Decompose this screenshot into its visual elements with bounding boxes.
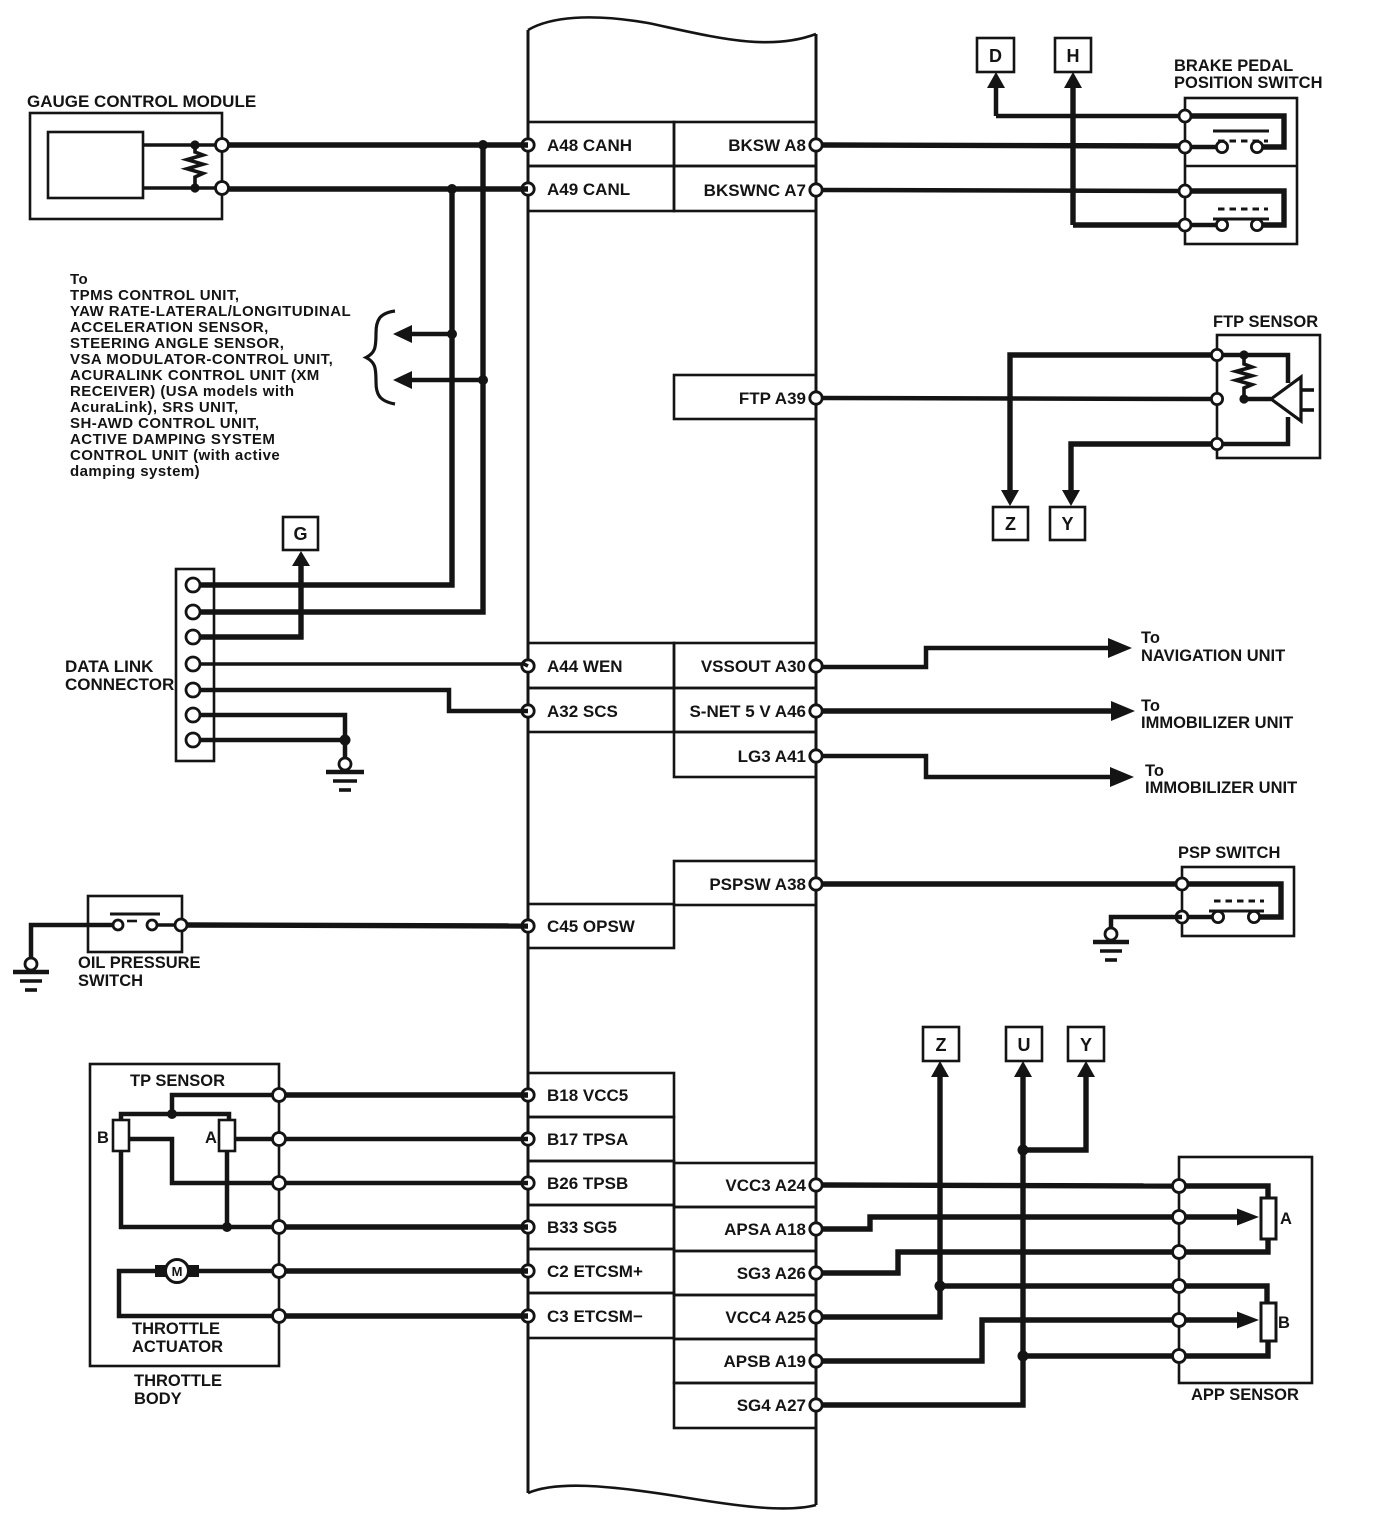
svg-text:B33 SG5: B33 SG5 — [547, 1218, 617, 1237]
pin cell FTP A39 (right side of ECM) — [674, 375, 822, 419]
oil pressure switch label — [78, 954, 201, 990]
pin cell C45 OPSW (left side of ECM) — [522, 904, 674, 948]
pin cell B18 VCC5 (left side of ECM) — [522, 1073, 674, 1117]
svg-text:G: G — [293, 524, 307, 544]
wire oil pressure switch to C45 OPSW — [187, 925, 528, 926]
DLC pin 3 circle — [186, 630, 200, 644]
svg-text:B: B — [1278, 1314, 1290, 1332]
svg-text:Z: Z — [936, 1035, 947, 1055]
potentiometer A (APP sensor) — [1261, 1198, 1292, 1239]
pin cell LG3 A41 (right side of ECM) — [674, 732, 822, 777]
wire C3 ETCSM- to motor — [119, 1271, 528, 1316]
oil pressure switch contact set — [110, 914, 176, 930]
PSP switch contact set — [1176, 878, 1281, 923]
data link connector label — [65, 657, 174, 694]
gauge control module inner unit box — [48, 132, 143, 198]
svg-text:LG3 A41: LG3 A41 — [738, 747, 806, 766]
svg-text:YAW RATE-LATERAL/LONGITUDINAL: YAW RATE-LATERAL/LONGITUDINAL — [70, 303, 351, 320]
potentiometer B (TP sensor) — [97, 1120, 129, 1151]
wire VCC3 A24 to APP sensor pot A top — [822, 1185, 1268, 1198]
svg-text:Y: Y — [1080, 1035, 1092, 1055]
connector circle gauge module CANH — [216, 139, 229, 152]
svg-text:FTP A39: FTP A39 — [739, 389, 806, 408]
svg-text:M: M — [172, 1264, 183, 1279]
svg-text:ACTUATOR: ACTUATOR — [132, 1338, 223, 1356]
wire SG4 A27 via connector U and Y, and APP pot B bottom — [822, 1061, 1268, 1405]
svg-text:TP SENSOR: TP SENSOR — [130, 1072, 225, 1090]
svg-text:B18 VCC5: B18 VCC5 — [547, 1086, 628, 1105]
svg-text:damping system): damping system) — [70, 463, 200, 480]
wire DLC pin7 to ground junction — [200, 735, 351, 759]
wire S-NET 5V A46 to immobilizer unit with right arrow — [822, 701, 1135, 721]
svg-text:POSITION SWITCH: POSITION SWITCH — [1174, 74, 1323, 92]
DLC pin 2 circle — [186, 605, 200, 619]
resistor (CAN termination) inside gauge control module — [187, 140, 203, 192]
wire CANL vertical drop to DLC pin 1 — [200, 189, 452, 585]
oil pressure switch terminal circle — [175, 919, 187, 931]
svg-text:D: D — [989, 46, 1002, 66]
svg-text:BKSW A8: BKSW A8 — [728, 136, 806, 155]
svg-text:NAVIGATION UNIT: NAVIGATION UNIT — [1141, 647, 1285, 665]
wire BKSW A8 to brake switch — [822, 145, 1185, 146]
svg-text:APSA A18: APSA A18 — [724, 1220, 806, 1239]
svg-text:BODY: BODY — [134, 1390, 182, 1408]
potentiometer A (TP sensor) — [205, 1120, 235, 1151]
svg-text:A49 CANL: A49 CANL — [547, 180, 630, 199]
wire brake switch NO to connector D with up arrow — [987, 72, 1185, 116]
svg-text:OIL PRESSURE: OIL PRESSURE — [78, 954, 201, 972]
ground symbol (oil pressure switch) — [13, 958, 49, 990]
pin cell SG3 A26 (right side of ECM) — [674, 1251, 822, 1295]
svg-text:To: To — [70, 271, 88, 288]
svg-text:VCC4 A25: VCC4 A25 — [725, 1308, 806, 1327]
DLC pin 5 circle — [186, 683, 200, 697]
TP sensor terminal circles — [273, 1089, 286, 1323]
FTP sensor terminal circles — [1211, 349, 1222, 449]
brake pedal position switch outer box — [1185, 98, 1297, 244]
ECM/PCM main column outline with torn wavy top and bottom edges — [528, 17, 816, 1508]
wire VSSOUT A30 to navigation unit with right arrow — [822, 638, 1132, 667]
wire A49 CANL bus (gauge module to ECM) — [228, 186, 528, 191]
connector Y box (upper) — [1050, 507, 1085, 540]
brace (curly bracket) grouping CAN branch arrows — [366, 311, 395, 404]
pin cell APSB A19 (right side of ECM) — [674, 1339, 822, 1383]
label To IMMOBILIZER UNIT (lower) — [1145, 762, 1297, 797]
svg-text:ACTIVE DAMPING SYSTEM: ACTIVE DAMPING SYSTEM — [70, 431, 275, 448]
DLC pin 7 circle — [186, 733, 200, 747]
gauge control module outer box — [30, 113, 222, 219]
pin cell BKSWNC A7 (right side of ECM) — [674, 166, 822, 211]
svg-text:ACURALINK CONTROL UNIT (XM: ACURALINK CONTROL UNIT (XM — [70, 367, 320, 384]
APP sensor terminal circles — [1173, 1180, 1186, 1363]
wire gauge module CANL internal — [143, 186, 222, 190]
DLC pin 4 circle — [186, 657, 200, 671]
svg-text:VSSOUT A30: VSSOUT A30 — [701, 657, 806, 676]
svg-text:B17 TPSA: B17 TPSA — [547, 1130, 628, 1149]
wire brake switch NC to connector H with up arrow — [1064, 72, 1185, 225]
wire SG3 A26 from APP pot A bottom — [822, 1239, 1268, 1273]
svg-text:SG3 A26: SG3 A26 — [737, 1264, 806, 1283]
brake switch terminal circles on box edge — [1179, 110, 1191, 231]
wire PSPSW A38 to PSP switch — [822, 881, 1182, 886]
svg-text:SG4 A27: SG4 A27 — [737, 1396, 806, 1415]
junction CANH bus at x483 — [478, 140, 488, 150]
svg-text:DATA LINK: DATA LINK — [65, 657, 154, 676]
wire FTP sensor VCC to connector Z with down arrow — [1001, 355, 1217, 506]
throttle body outer box — [90, 1064, 279, 1366]
throttle actuator label — [132, 1320, 223, 1356]
svg-text:IMMOBILIZER UNIT: IMMOBILIZER UNIT — [1145, 779, 1297, 797]
throttle actuator motor M — [155, 1260, 199, 1283]
brake pedal position switch label — [1174, 57, 1323, 92]
svg-text:APSB A19: APSB A19 — [723, 1352, 806, 1371]
svg-text:A44 WEN: A44 WEN — [547, 657, 623, 676]
svg-text:VCC3 A24: VCC3 A24 — [725, 1176, 806, 1195]
wire APSA A18 from APP pot A wiper — [822, 1209, 1259, 1230]
svg-text:ACCELERATION SENSOR,: ACCELERATION SENSOR, — [70, 319, 269, 336]
svg-text:Y: Y — [1061, 514, 1073, 534]
pin cell C2 ETCSM+ (left side of ECM) — [522, 1249, 674, 1293]
wire BKSWNC A7 to brake switch — [822, 190, 1185, 191]
pin cell A49 CANL (left side of ECM) — [522, 166, 674, 211]
connector D box — [977, 38, 1014, 72]
pin cell S-NET 5 V A46 (right side of ECM) — [674, 688, 822, 732]
svg-text:GAUGE CONTROL MODULE: GAUGE CONTROL MODULE — [27, 92, 256, 111]
pin cell B33 SG5 (left side of ECM) — [522, 1205, 674, 1249]
wire LG3 A41 to immobilizer unit with right arrow — [822, 756, 1134, 787]
svg-text:H: H — [1067, 46, 1080, 66]
svg-text:THROTTLE: THROTTLE — [132, 1320, 220, 1338]
svg-text:CONTROL UNIT (with active: CONTROL UNIT (with active — [70, 447, 280, 464]
svg-text:THROTTLE: THROTTLE — [134, 1372, 222, 1390]
junction CANL bus at x452 — [447, 184, 457, 194]
brake switch lower (NC) contact set — [1188, 191, 1284, 231]
FTP sensor internal transducer triangle — [1217, 355, 1314, 444]
data link connector box — [176, 569, 214, 761]
svg-text:To: To — [1145, 762, 1164, 780]
svg-text:Z: Z — [1005, 514, 1016, 534]
ground symbol G101 (DLC) — [326, 758, 364, 790]
pin cell PSPSW A38 (right side of ECM) — [674, 861, 822, 905]
svg-text:A48 CANH: A48 CANH — [547, 136, 632, 155]
pin cell A48 CANH (left side of ECM) — [522, 122, 674, 166]
connector H box — [1055, 38, 1091, 72]
svg-text:STEERING ANGLE SENSOR,: STEERING ANGLE SENSOR, — [70, 335, 284, 352]
svg-text:VSA MODULATOR-CONTROL UNIT,: VSA MODULATOR-CONTROL UNIT, — [70, 351, 333, 368]
svg-text:C3 ETCSM−: C3 ETCSM− — [547, 1307, 643, 1326]
wire A48 CANH bus (gauge module to ECM) — [228, 142, 528, 147]
svg-text:A: A — [205, 1129, 217, 1147]
svg-text:FTP SENSOR: FTP SENSOR — [1213, 313, 1318, 331]
svg-text:B: B — [97, 1129, 109, 1147]
FTP sensor box — [1217, 335, 1320, 458]
oil pressure switch box — [88, 896, 182, 952]
wire B26 TPSB from pot B wiper — [129, 1139, 528, 1183]
connector Z box (lower) — [923, 1027, 959, 1061]
svg-text:B26 TPSB: B26 TPSB — [547, 1174, 628, 1193]
wire VCC4 A25 to APP pot B top, with branch to connector Z — [822, 1061, 1267, 1317]
wire gauge module CANH internal — [143, 143, 222, 147]
brake switch upper (NO) contact set — [1188, 116, 1284, 153]
svg-text:S-NET 5 V A46: S-NET 5 V A46 — [689, 702, 806, 721]
pin cell A32 SCS (left side of ECM) — [522, 688, 674, 732]
wire DLC pin3 to connector G with up arrow — [200, 551, 310, 637]
wire C2 ETCSM+ to motor — [199, 1269, 528, 1274]
pin cell APSA A18 (right side of ECM) — [674, 1207, 822, 1251]
connector U box (lower) — [1006, 1027, 1042, 1061]
label To IMMOBILIZER UNIT (upper) — [1141, 697, 1293, 732]
wire PSP switch to ground — [1111, 917, 1182, 928]
DLC pin 6 circle — [186, 708, 200, 722]
svg-text:A32 SCS: A32 SCS — [547, 702, 618, 721]
note text: To TPMS CONTROL UNIT etc — [70, 271, 351, 480]
svg-text:APP SENSOR: APP SENSOR — [1191, 1386, 1299, 1404]
svg-text:BRAKE PEDAL: BRAKE PEDAL — [1174, 57, 1293, 75]
pin cell VSSOUT A30 (right side of ECM) — [674, 643, 822, 688]
wire VCC5 internal feed to pots A and B — [121, 1095, 279, 1120]
label To NAVIGATION UNIT — [1141, 629, 1285, 665]
svg-text:PSPSW A38: PSPSW A38 — [709, 875, 806, 894]
wire B18 VCC5 to TP sensor — [286, 1092, 528, 1097]
wire FTP sensor ground to connector Y with down arrow — [1062, 444, 1217, 506]
svg-text:SH-AWD CONTROL UNIT,: SH-AWD CONTROL UNIT, — [70, 415, 260, 432]
pin cell B26 TPSB (left side of ECM) — [522, 1161, 674, 1205]
svg-text:To: To — [1141, 629, 1160, 647]
svg-text:IMMOBILIZER UNIT: IMMOBILIZER UNIT — [1141, 714, 1293, 732]
svg-text:C2 ETCSM+: C2 ETCSM+ — [547, 1262, 643, 1281]
svg-text:PSP SWITCH: PSP SWITCH — [1178, 844, 1280, 862]
connector circle gauge module CANL — [216, 182, 229, 195]
wire oil pressure switch to ground — [31, 925, 113, 958]
pin cell SG4 A27 (right side of ECM) — [674, 1383, 822, 1428]
wire DLC pin5 to A32 SCS — [200, 690, 528, 711]
connector Y box (lower) — [1068, 1027, 1104, 1061]
wire DLC pin4 to A44 WEN — [200, 664, 528, 666]
DLC pin 1 circle — [186, 578, 200, 592]
svg-text:RECEIVER) (USA models with: RECEIVER) (USA models with — [70, 383, 295, 400]
potentiometer B (APP sensor) — [1261, 1303, 1290, 1341]
wire APSB A19 from APP pot B wiper — [822, 1312, 1259, 1362]
pin cell BKSW A8 (right side of ECM) — [674, 122, 822, 166]
svg-text:CONNECTOR: CONNECTOR — [65, 675, 174, 694]
svg-text:A: A — [1280, 1210, 1292, 1228]
PSP switch box — [1182, 867, 1294, 936]
svg-text:SWITCH: SWITCH — [78, 972, 143, 990]
throttle body label — [134, 1372, 222, 1408]
svg-text:AcuraLink), SRS UNIT,: AcuraLink), SRS UNIT, — [70, 399, 239, 416]
wire DLC pin6 to ground — [200, 715, 345, 740]
wire arrow branch from CANL to other control units — [393, 325, 457, 343]
ground symbol (PSP switch) — [1093, 928, 1129, 960]
wire FTP A39 signal to ECM — [822, 398, 1217, 399]
svg-text:TPMS CONTROL UNIT,: TPMS CONTROL UNIT, — [70, 287, 240, 304]
pin cell B17 TPSA (left side of ECM) — [522, 1117, 674, 1161]
wire B33 SG5 from pot bottoms — [121, 1151, 528, 1232]
wire B17 TPSA from pot A wiper — [235, 1137, 528, 1142]
svg-text:To: To — [1141, 697, 1160, 715]
svg-text:C45 OPSW: C45 OPSW — [547, 917, 636, 936]
pin cell VCC4 A25 (right side of ECM) — [674, 1295, 822, 1339]
pin cell VCC3 A24 (right side of ECM) — [674, 1163, 822, 1207]
APP sensor box — [1179, 1157, 1312, 1383]
pin cell C3 ETCSM- (left side of ECM) — [522, 1293, 674, 1338]
svg-text:U: U — [1018, 1035, 1031, 1055]
wire CANH vertical drop to DLC pin 2 — [200, 145, 483, 612]
FTP sensor internal resistor — [1236, 350, 1252, 403]
connector G box — [283, 517, 318, 550]
wire arrow branch from CANH to other control units — [393, 371, 488, 389]
svg-text:BKSWNC A7: BKSWNC A7 — [704, 181, 806, 200]
connector Z box (upper) — [993, 507, 1028, 540]
pin cell A44 WEN (left side of ECM) — [522, 643, 674, 688]
